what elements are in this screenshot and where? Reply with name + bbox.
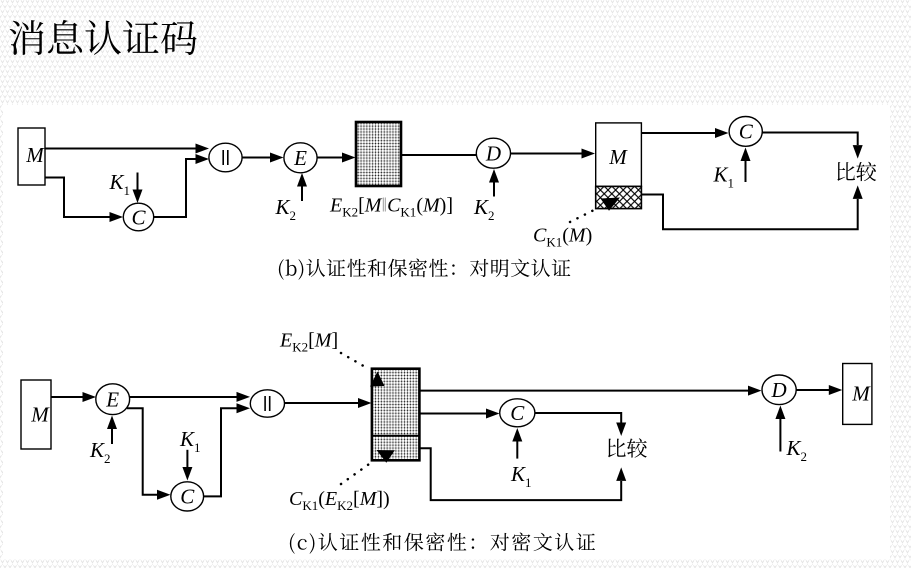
svg-text:M: M: [25, 143, 45, 167]
svg-text:D: D: [485, 142, 501, 166]
svg-text:C: C: [739, 120, 754, 144]
svg-text:EK2[M]: EK2[M]: [279, 330, 338, 355]
svg-text:C: C: [510, 401, 525, 425]
svg-text:M: M: [608, 145, 628, 169]
svg-text:E: E: [105, 388, 119, 412]
svg-text:C: C: [131, 206, 146, 230]
svg-text:E: E: [293, 146, 307, 170]
svg-text:M: M: [851, 382, 871, 406]
svg-text:D: D: [771, 378, 787, 402]
svg-text:CK1(M): CK1(M): [533, 225, 592, 250]
svg-text:M: M: [30, 403, 50, 427]
svg-text:C: C: [180, 485, 195, 509]
